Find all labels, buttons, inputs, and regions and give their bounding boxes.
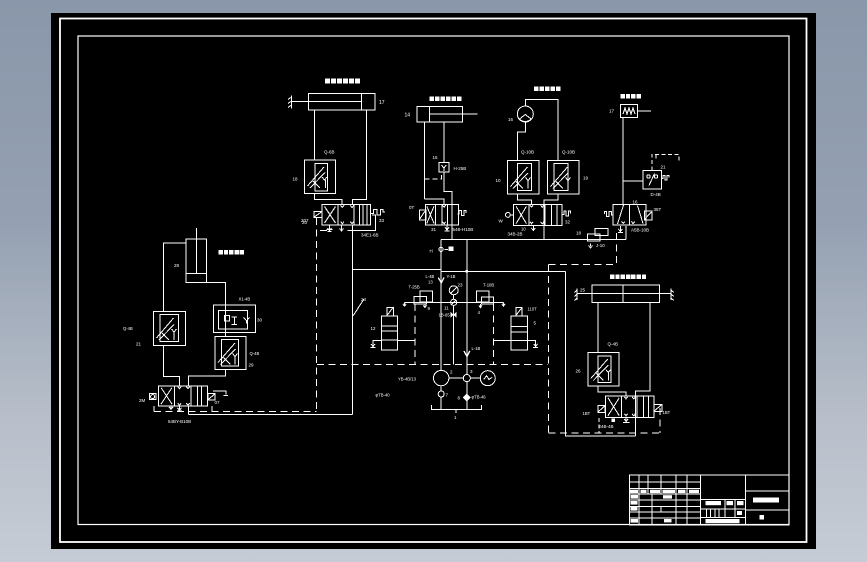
- dashed enclosure bottom (group 5): [548, 432, 660, 434]
- solenoid VL right: [208, 394, 215, 401]
- pilot relief valve 5: [511, 307, 528, 350]
- middle text row verticals: [724, 499, 726, 509]
- svg-text:07: 07: [215, 400, 221, 405]
- manifold wire P (top): [441, 239, 626, 241]
- svg-text:D-4B: D-4B: [651, 192, 661, 197]
- svg-text:14: 14: [405, 113, 411, 119]
- svg-text:16: 16: [633, 200, 639, 205]
- gear pump 2: [434, 370, 449, 385]
- solenoid V5 right: [654, 404, 662, 411]
- dashed drain filter 4: [493, 304, 495, 364]
- label: 手动控制进给装置 (cylinder C25 title): [610, 275, 646, 279]
- pilot relief valve 12: [382, 307, 398, 350]
- ground anchor left (C25): [574, 289, 577, 301]
- wire flow valve 29 to valve VL: [189, 370, 226, 386]
- wire flow valve 26 to valve V5: [598, 386, 626, 396]
- svg-text:18: 18: [293, 177, 299, 182]
- col1 row labels: [631, 495, 639, 499]
- dashed drain filter 9: [414, 304, 416, 365]
- svg-text:34B-2B: 34B-2B: [508, 232, 523, 237]
- svg-text:Q-4B: Q-4B: [608, 342, 619, 347]
- drain arrow V4: [618, 226, 623, 233]
- wire C25 right port down: [635, 303, 650, 436]
- wire C14 right port to check valve 15: [443, 122, 445, 163]
- svg-text:T-25B: T-25B: [409, 284, 420, 289]
- air filter 4 (T-10B): [477, 291, 494, 308]
- solenoid V2 left: [419, 210, 425, 220]
- relief 12 left wing + drain arrow: [371, 340, 382, 347]
- directional valve V4 (A5B-10B) body: [613, 205, 646, 226]
- svg-text:10: 10: [496, 178, 502, 183]
- relief 5 right wing + drain arrow: [528, 340, 539, 347]
- svg-text:2M: 2M: [139, 398, 146, 403]
- rail left drain hook: [403, 302, 406, 306]
- wire C28 right port to check group: [207, 283, 226, 337]
- wire flow valve 21 to valve VL: [164, 345, 180, 386]
- ground anchor right (C25): [671, 289, 674, 301]
- svg-text:35T: 35T: [654, 207, 662, 212]
- svg-text:110T: 110T: [528, 307, 538, 312]
- shutoff cock (filled bowtie): [451, 312, 457, 318]
- svg-text:18: 18: [576, 231, 582, 236]
- svg-text:34E1-6B: 34E1-6B: [361, 233, 379, 238]
- right bottom label P: [760, 515, 765, 520]
- svg-text:17: 17: [379, 100, 385, 106]
- check valve group 30: [213, 305, 255, 332]
- bottom middle label 阀-XX阀-X: [706, 519, 740, 523]
- pilot dashed line to check valve 15: [425, 173, 442, 180]
- svg-text:21: 21: [136, 342, 142, 347]
- wire left flow valve to V3: [517, 194, 531, 204]
- oil tank 1: [432, 405, 482, 413]
- flow control valve 21 (left): [154, 311, 186, 345]
- label L-4B / 13: [426, 274, 435, 285]
- label: 手动送料油缸 (cylinder C28 title): [219, 250, 245, 254]
- middle small cells verticals: [705, 509, 707, 517]
- svg-text:L-1B: L-1B: [472, 346, 481, 351]
- svg-text:29: 29: [249, 363, 255, 368]
- svg-text:26: 26: [576, 369, 582, 374]
- svg-text:54B-H10B: 54B-H10B: [453, 227, 474, 232]
- label J-10: [589, 243, 606, 248]
- piston rod C28: [196, 228, 198, 274]
- svg-text:1B-65: 1B-65: [439, 313, 451, 318]
- wire P branch horizontal (left): [353, 268, 442, 270]
- flow control valve 19 (Q-10B right): [548, 160, 579, 194]
- wire P supply to V5: [565, 271, 635, 436]
- pilot bracket VL right: [213, 391, 228, 396]
- svg-text:17: 17: [609, 109, 615, 114]
- svg-text:Q-10B: Q-10B: [521, 150, 534, 155]
- flow control valve 10 (Q-10B left): [508, 160, 539, 194]
- svg-text:33: 33: [379, 218, 385, 223]
- cylinder C25 body: [592, 285, 660, 303]
- directional valve V1 (34E1-6B) body: [322, 205, 370, 225]
- left grid verticals (upper): [638, 475, 640, 494]
- wire C14 left port down: [424, 122, 426, 199]
- middle label 制图比例 blobs: [706, 501, 722, 505]
- left grid horizontals: [630, 481, 701, 483]
- wire flow valve 18 to valve V1: [315, 194, 343, 205]
- svg-text:1BT: 1BT: [583, 411, 591, 416]
- dashed stub VL left: [153, 406, 155, 412]
- directional valve V3 (34B-2B) body: [514, 205, 563, 226]
- wire C25 left port to flow valve 26: [597, 303, 599, 353]
- relief 12 right wing: [397, 339, 415, 341]
- svg-text:21: 21: [661, 165, 667, 170]
- svg-text:L-4B: L-4B: [426, 274, 435, 279]
- rail right drain hook: [502, 302, 505, 306]
- solenoid V1 left: [314, 211, 322, 217]
- flow arrow on return drop: [464, 351, 470, 357]
- gauge line (tank breather rail): [405, 301, 504, 303]
- wire VL return port down: [187, 406, 189, 415]
- drain bracket V1 left: [320, 230, 327, 232]
- wire motor top to right flow valve: [525, 100, 558, 161]
- svg-text:15: 15: [433, 155, 439, 160]
- leader line 24: [353, 297, 367, 316]
- svg-text:φTB-46: φTB-46: [472, 395, 487, 400]
- dashed drain net: bottom horizontal to VL: [154, 411, 317, 413]
- label: 定位油缸 (unit 17 title): [621, 94, 641, 98]
- svg-text:A5B-10B: A5B-10B: [631, 228, 649, 233]
- svg-text:25: 25: [580, 288, 586, 293]
- wire C28 left port to flow valve: [164, 243, 186, 311]
- drain arrows V5: [612, 417, 630, 422]
- flow control valve 18 (Q-6B): [305, 160, 336, 194]
- svg-text:J-10: J-10: [596, 243, 605, 248]
- pilot box VL left: [149, 394, 156, 400]
- svg-text:24: 24: [361, 297, 367, 302]
- return check 8 (diamond): [464, 382, 470, 410]
- wire C14 left jog to valve V2: [425, 199, 445, 205]
- dashed pilot line D-4B: [652, 154, 679, 170]
- dashed pilot net right: horizontal: [549, 264, 617, 266]
- svg-text:1BT: 1BT: [663, 410, 671, 415]
- right label 机床夹具厂: [753, 498, 779, 503]
- wire V1 P long vertical: [352, 225, 354, 415]
- pressure gauge 23: [449, 286, 458, 299]
- solenoid V5 left: [598, 405, 605, 412]
- pilot-operated check valve 15 (H-25B): [439, 163, 449, 173]
- flow arrow on pump riser: [438, 278, 444, 284]
- title block section dividers: [700, 475, 702, 525]
- wire motor bottom to left flow valve: [517, 122, 525, 160]
- wire right flow valve to V3: [544, 194, 558, 239]
- piston rod C14: [430, 113, 478, 115]
- wire branch to relief D-4B: [623, 180, 643, 182]
- svg-text:Q-6B: Q-6B: [324, 150, 335, 155]
- drain arrow V2: [445, 225, 450, 231]
- svg-text:φTB-40: φTB-40: [376, 393, 391, 398]
- piston rod C17: [292, 100, 362, 102]
- drain bracket V1 right: [348, 215, 376, 231]
- suction strainer 7: [438, 386, 444, 410]
- directional valve V5 (24B-4B) body: [606, 396, 654, 417]
- air filter 9 (T-25B): [414, 291, 433, 307]
- drain arrow V3: [531, 226, 535, 231]
- dashed drain stub V5 left: [598, 418, 600, 433]
- left grid verticals (lower): [638, 494, 640, 525]
- dashed drain net: V1 down: [316, 218, 318, 412]
- wire pump riser: [440, 240, 442, 371]
- relief 5 left wing: [494, 339, 511, 341]
- pilot box V3 left: [506, 213, 514, 218]
- directional valve V2 (54B-H10B) body: [425, 205, 458, 226]
- svg-text:Q-4B: Q-4B: [250, 351, 260, 356]
- pressure relay 18 (J-10): [588, 228, 608, 241]
- dashed tank boundary (power unit): [317, 363, 547, 365]
- pressure valve D-4B: [643, 171, 669, 189]
- svg-text:12: 12: [371, 326, 377, 331]
- cell label 材料: [663, 495, 672, 498]
- junction dot: [465, 270, 468, 273]
- spring V4 left: [605, 212, 614, 217]
- svg-text:16: 16: [508, 117, 514, 122]
- right section horizontals: [746, 490, 790, 492]
- spring V2 right: [457, 211, 466, 216]
- pressure test point H on riser: [430, 247, 454, 254]
- drain arrow V1 mid: [340, 225, 344, 231]
- svg-text:54BY-B10B: 54BY-B10B: [168, 419, 191, 424]
- ground anchor (cylinder 17 rod): [288, 96, 292, 109]
- small cell blob: [737, 511, 742, 515]
- dashed stub VL right: [211, 406, 213, 412]
- spring V1 right: [370, 210, 385, 216]
- svg-text:YB-4B/13: YB-4B/13: [398, 377, 417, 382]
- wire pump to junction: [449, 377, 464, 379]
- svg-text:T-10B: T-10B: [483, 282, 494, 287]
- label: 手动夹紧油缸 (cylinder C17 title): [325, 79, 360, 84]
- svg-text:13: 13: [428, 280, 433, 285]
- svg-text:Q-10B: Q-10B: [562, 150, 575, 155]
- svg-text:H-25B: H-25B: [454, 166, 467, 171]
- inner border frame: [78, 36, 789, 525]
- svg-text:X1-4B: X1-4B: [239, 297, 251, 302]
- hydraulic motor 16: [517, 106, 533, 122]
- cell label 重量: [664, 519, 672, 522]
- svg-text:30: 30: [257, 318, 263, 323]
- dashed enclosure right (group 5): [659, 408, 661, 433]
- label: 手动压紧油缸 (cylinder C14 title): [430, 97, 462, 102]
- svg-text:20: 20: [302, 220, 308, 225]
- label: 铣刨冷却液泵 (motor M16 title): [534, 87, 561, 92]
- svg-text:32: 32: [565, 220, 571, 225]
- svg-text:19: 19: [583, 176, 589, 181]
- coupling junction 3: [463, 375, 470, 382]
- wire 17 down to valve V4: [622, 118, 624, 205]
- svg-text:24B-4B: 24B-4B: [599, 424, 614, 429]
- wire V4 P port to manifold: [625, 226, 627, 240]
- svg-text:28: 28: [174, 263, 180, 268]
- solenoid V4 right: [644, 211, 652, 220]
- wire C17 right port down: [353, 110, 367, 205]
- pressure switch 17 (spring box): [620, 104, 651, 117]
- flow control valve 29 (lower): [215, 336, 246, 369]
- svg-text:0T: 0T: [409, 205, 415, 210]
- svg-text:31: 31: [431, 227, 437, 232]
- drain arrow V1: [327, 225, 333, 232]
- dashed pilot net right: from V4: [616, 233, 618, 265]
- svg-text:Y-1B: Y-1B: [447, 274, 456, 279]
- drain arrows VL: [169, 406, 182, 411]
- wire junction to motor: [470, 377, 480, 379]
- flow control valve 26 (Q-4B): [588, 353, 619, 387]
- wire P branch horizontal (right): [441, 270, 565, 272]
- piston rod C25 (double): [577, 293, 671, 295]
- svg-text:Q-4B: Q-4B: [123, 326, 133, 331]
- wire return drop 466.8: [466, 240, 468, 376]
- gauge isolator 11: [451, 299, 457, 364]
- cylinder C14 body: [417, 107, 463, 123]
- svg-text:23: 23: [458, 283, 464, 288]
- svg-text:H: H: [430, 249, 433, 254]
- title row labels (blobs): [630, 490, 638, 493]
- electric motor 6: [480, 371, 495, 386]
- cylinder C17 body: [309, 93, 376, 110]
- svg-text:11: 11: [444, 306, 449, 311]
- cylinder C28 body: [186, 239, 207, 283]
- return wire to left valve: [188, 414, 352, 416]
- dashed pilot net right: down: [548, 265, 550, 434]
- wire C17 left port to flow valve 18: [314, 110, 316, 160]
- wire check valve 15 to valve V2: [444, 172, 452, 239]
- middle section horizontals: [701, 498, 746, 500]
- title block outer: [630, 475, 790, 525]
- spring V3 right: [562, 211, 571, 216]
- directional valve VL (54BY-B10B) body: [159, 386, 208, 406]
